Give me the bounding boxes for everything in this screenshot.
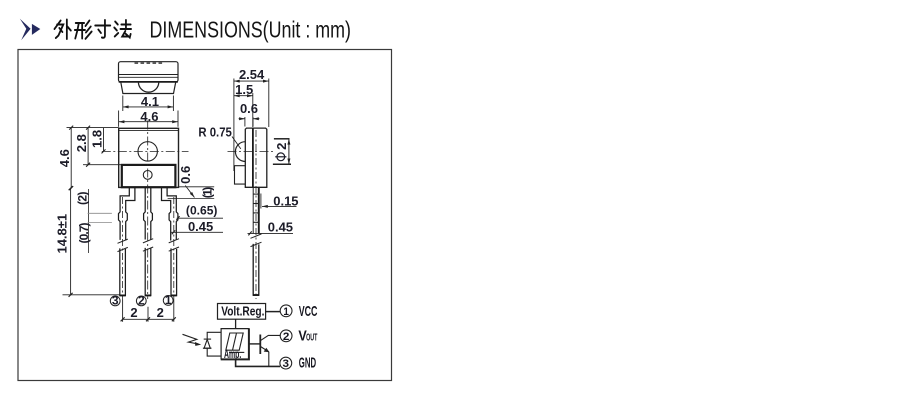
svg-text:(1): (1) xyxy=(201,187,215,199)
svg-text:2: 2 xyxy=(138,294,145,308)
svg-text:1.8: 1.8 xyxy=(90,130,105,148)
lead 3 (left) xyxy=(119,187,135,295)
svg-text:Amp.: Amp. xyxy=(224,347,241,361)
side lead lower xyxy=(253,244,259,295)
pin 2 circle xyxy=(280,330,292,342)
side horizontal centerline xyxy=(228,151,274,153)
形 xyxy=(76,22,84,24)
top view body outline xyxy=(119,62,179,82)
dimension phi-2 bracket xyxy=(273,139,291,165)
lead centerlines xyxy=(123,197,174,300)
vertical centerline xyxy=(147,121,149,300)
photodiode xyxy=(203,339,212,348)
寸 xyxy=(95,25,110,27)
svg-text:0.6: 0.6 xyxy=(178,166,193,184)
side lead break marks xyxy=(251,234,262,247)
left dimension 4.6 (front height) xyxy=(67,126,119,191)
dimension 4.6 (top) xyxy=(119,111,178,127)
side lead upper xyxy=(253,187,259,234)
svg-text:OUT: OUT xyxy=(306,333,317,344)
top view dashed window xyxy=(135,62,163,64)
lead 1 (right) xyxy=(162,187,178,295)
transistor Q1 xyxy=(249,335,281,367)
header arrow icon xyxy=(20,19,41,41)
horizontal centerline xyxy=(102,150,189,152)
svg-text:DIMENSIONS(Unit : mm): DIMENSIONS(Unit : mm) xyxy=(150,16,352,42)
pin number 3 xyxy=(110,294,120,308)
top view parting line 1 xyxy=(119,74,179,76)
pin number 1 xyxy=(163,293,173,307)
svg-text:3: 3 xyxy=(112,294,119,308)
svg-text:3: 3 xyxy=(283,358,290,370)
small hole circle xyxy=(143,171,152,180)
top view parting line 2 xyxy=(119,76,179,78)
left dimension (2) and (0.7) xyxy=(88,189,112,253)
front inner block (thick) xyxy=(122,165,176,187)
top view body bottom edge (thick) xyxy=(119,81,178,83)
top view lens dome arc xyxy=(138,82,158,92)
dimension 2-2 lead pitch xyxy=(121,300,176,322)
svg-text:2: 2 xyxy=(283,331,290,343)
svg-text:2.54: 2.54 xyxy=(239,67,265,82)
photodiode loop wires xyxy=(207,332,221,356)
svg-text:Volt.Reg.: Volt.Reg. xyxy=(221,303,264,318)
front body top face line xyxy=(119,130,179,132)
right dimension (1) between extension lines xyxy=(168,187,215,199)
svg-text:1: 1 xyxy=(283,306,289,318)
svg-text:1.5: 1.5 xyxy=(235,82,253,97)
svg-text:GND: GND xyxy=(299,356,316,372)
svg-text:R 0.75: R 0.75 xyxy=(198,124,232,139)
pin 3 circle xyxy=(280,357,292,369)
lead 2 (middle) xyxy=(144,187,153,295)
外 xyxy=(54,21,60,30)
wire VoltReg to pin1 xyxy=(266,311,281,313)
dimension 4.1 xyxy=(123,96,174,112)
lead tip bottom edges (thick) xyxy=(120,294,259,296)
side lower tab xyxy=(235,166,246,184)
GND wire xyxy=(236,359,281,366)
Amp box xyxy=(221,329,249,360)
svg-text:(0.7): (0.7) xyxy=(77,223,91,244)
left dimension 2.8 xyxy=(83,126,122,167)
svg-text:0.45: 0.45 xyxy=(188,219,213,234)
header kanji 外形寸法 (drawn strokes) xyxy=(54,20,131,40)
side inner face line xyxy=(252,128,254,187)
svg-text:2: 2 xyxy=(274,143,289,150)
Volt.Reg. box xyxy=(218,304,266,320)
side lead centerline xyxy=(255,130,257,299)
mounting hole circle xyxy=(138,142,157,161)
pin 1 circle xyxy=(280,305,292,317)
svg-text:4.6: 4.6 xyxy=(57,149,72,167)
svg-text:14.8±1: 14.8±1 xyxy=(54,214,69,254)
hysteresis symbol xyxy=(226,333,245,352)
left dimension 1.8 xyxy=(102,128,106,154)
top view front trapezoid xyxy=(121,82,176,93)
left dimension 14.8±1 xyxy=(63,186,120,297)
svg-text:VCC: VCC xyxy=(299,304,318,320)
svg-text:0.6: 0.6 xyxy=(240,101,258,116)
side lens dome xyxy=(235,142,245,162)
pin number 2 xyxy=(136,294,146,308)
svg-text:2.8: 2.8 xyxy=(74,134,89,152)
front body xyxy=(119,128,179,187)
svg-text:0.45: 0.45 xyxy=(268,220,293,235)
side body slab xyxy=(245,128,266,187)
svg-text:(2): (2) xyxy=(75,192,89,206)
svg-text:(0.65): (0.65) xyxy=(186,204,218,218)
wire VoltReg to Amp xyxy=(235,319,237,328)
svg-text:2: 2 xyxy=(130,305,137,320)
svg-text:2: 2 xyxy=(157,305,164,320)
法 xyxy=(115,22,118,25)
svg-text:4.1: 4.1 xyxy=(141,94,159,109)
light arrows xyxy=(183,334,202,346)
svg-text:4.6: 4.6 xyxy=(140,109,158,124)
lead break marks xyxy=(118,239,180,252)
drawing frame xyxy=(18,50,392,381)
